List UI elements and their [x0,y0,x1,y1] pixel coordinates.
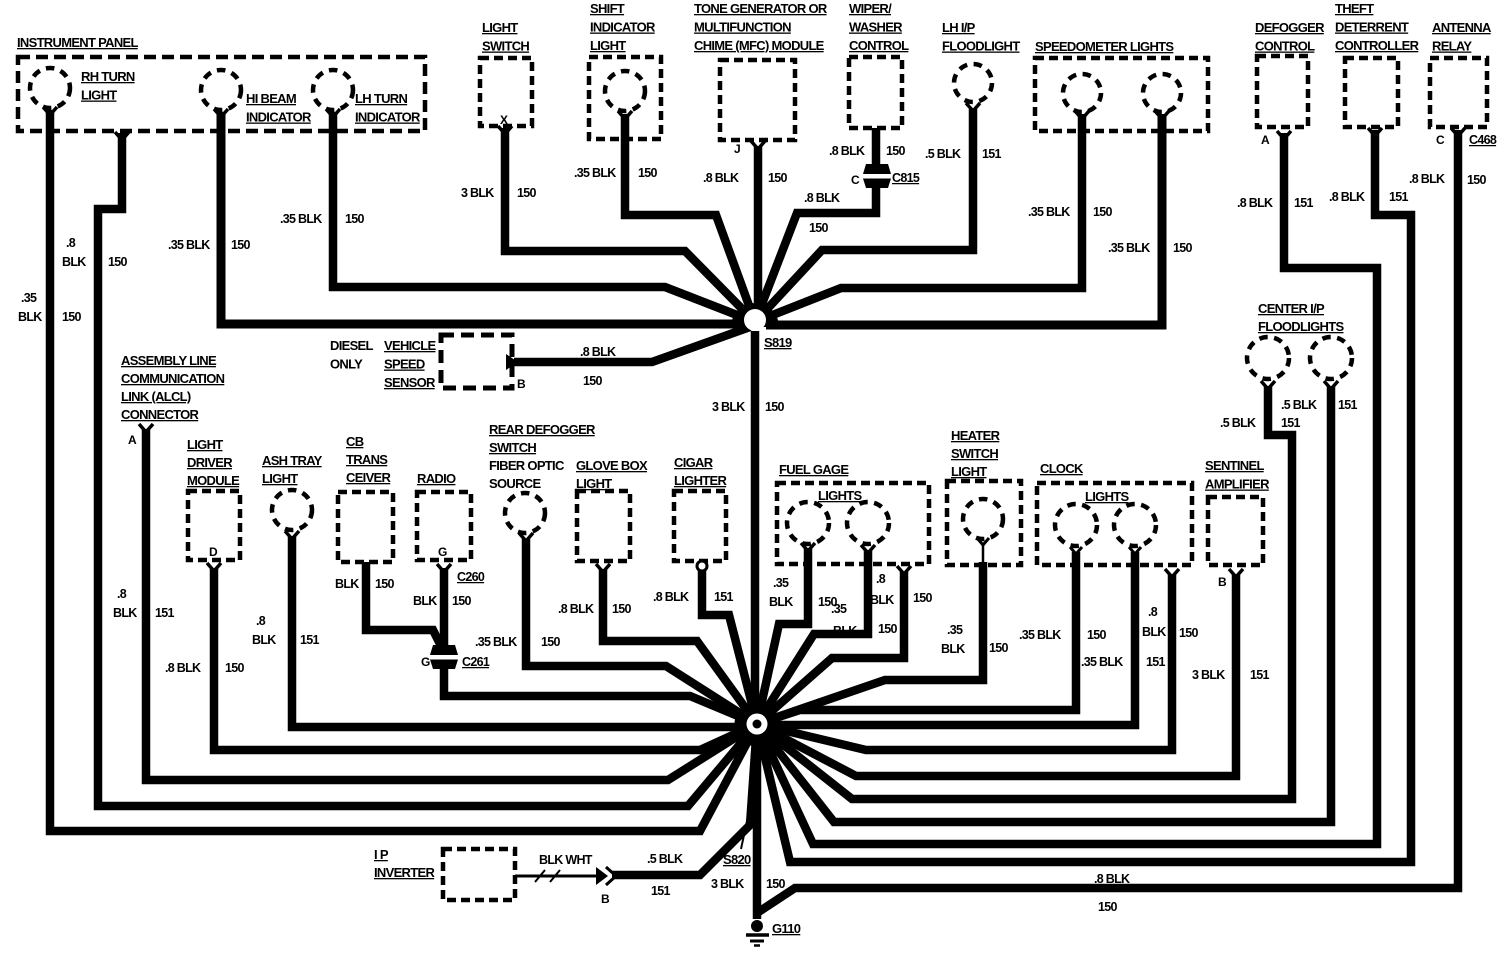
wire S820 to ground G110 (3 BLK 150) [753,724,762,919]
wire I/P INVERTER pin B to S820 (.5 BLK 151) [612,724,757,875]
svg-text:150: 150 [612,602,632,616]
svg-text:151: 151 [1338,398,1358,412]
svg-text:B: B [517,377,526,391]
svg-text:150: 150 [1173,241,1193,255]
svg-text:HI BEAM: HI BEAM [246,91,296,106]
svg-text:.8 BLK: .8 BLK [703,171,739,185]
svg-text:LH TURN: LH TURN [355,91,407,106]
module DEFOGGER CONTROL pin A [1255,20,1325,147]
label .8 BLK 150 (antenna relay wire bottom) [1094,872,1130,914]
svg-text:.8: .8 [117,587,127,601]
label .35 BLK 151 (clock wire 2) [1081,655,1166,669]
splice S819 [731,303,792,350]
svg-text:3 BLK: 3 BLK [461,186,494,200]
label .35 BLK 150 (LH TURN wire) [280,212,365,226]
svg-text:B: B [601,892,610,906]
svg-text:DIESEL: DIESEL [330,338,374,353]
svg-text:150: 150 [452,594,472,608]
svg-text:S819: S819 [764,335,792,350]
svg-text:S820: S820 [723,852,751,867]
svg-text:LIGHTER: LIGHTER [674,473,727,488]
svg-text:3 BLK: 3 BLK [1192,668,1225,682]
svg-text:.8: .8 [256,614,266,628]
svg-text:150: 150 [225,661,245,675]
svg-text:FLOODLIGHTS: FLOODLIGHTS [1258,319,1344,334]
svg-text:SWITCH: SWITCH [489,440,536,455]
lamp LH TURN INDICATOR [313,70,421,125]
label .5 BLK 151 (inverter wire) [647,852,683,898]
connector ASSEMBLY LINE COMMUNICATION LINK (ALCL) CONNECTOR pin A [121,353,225,447]
svg-text:150: 150 [1179,626,1199,640]
label 3 BLK 150 (S819-S820 wire) [712,400,785,414]
svg-text:FUEL GAGE: FUEL GAGE [779,462,849,477]
svg-text:.35: .35 [773,576,789,590]
svg-text:3 BLK: 3 BLK [712,400,745,414]
svg-text:CONTROL: CONTROL [1255,39,1315,54]
svg-text:SHIFT: SHIFT [590,1,625,16]
wire CB TRANSCEIVER to C261 (BLK 150) [366,562,444,652]
svg-text:150: 150 [809,221,829,235]
svg-text:151: 151 [155,606,175,620]
svg-text:151: 151 [982,147,1002,161]
svg-text:DEFOGGER: DEFOGGER [1255,20,1325,35]
svg-text:ASH TRAY: ASH TRAY [262,453,323,468]
svg-text:LIGHT: LIGHT [187,437,223,452]
svg-text:150: 150 [517,186,537,200]
wire SPEEDOMETER lamp 1 to S819 (.35 BLK 150) [755,114,1082,322]
svg-text:151: 151 [1250,668,1270,682]
svg-text:D: D [209,545,218,559]
module RADIO pin G [417,471,471,560]
label .8 BLK 151 (ALCL wire) [113,587,175,620]
label .8 BLK 151 (ash tray wire) [252,614,320,647]
label .8 BLK 151 (defogger wire) [1237,196,1314,210]
svg-text:INVERTER: INVERTER [374,865,435,880]
wire SPEEDOMETER lamp 2 to S819 (.35 BLK 150) [766,114,1162,325]
svg-text:J: J [734,142,740,156]
svg-text:INDICATOR: INDICATOR [355,110,421,125]
label .8 BLK 150 (instrument panel wire 2) [62,236,128,269]
label 3 BLK 150 (ground wire) [711,877,786,891]
wire CLOCK lamp 2 to S820 (.35 BLK 151) [766,552,1135,725]
label .5 BLK 151 (center I/P floodlight wire 2) [1281,398,1358,412]
svg-text:.35: .35 [21,291,37,305]
svg-text:.8: .8 [876,572,886,586]
label .8 BLK 151 (theft deterrent wire) [1329,190,1409,204]
connector C815 pin C [851,164,920,188]
svg-text:SPEEDOMETER LIGHTS: SPEEDOMETER LIGHTS [1035,39,1174,54]
label .8 BLK 150 (clock wire 3) [1142,605,1199,640]
svg-text:150: 150 [108,255,128,269]
sensor VEHICLE SPEED SENSOR (diesel only) pin B [330,335,526,391]
lamp ASH TRAY LIGHT [262,453,323,539]
wire DEFOGGER CONTROL to S820 (.8 BLK 151) [757,133,1377,844]
svg-text:C468: C468 [1469,133,1497,147]
label .8 BLK 150 (fuel gage wire 3) [870,572,933,607]
svg-text:.35: .35 [947,623,963,637]
svg-text:BLK: BLK [335,577,359,591]
speedometer lights (dashed enclosure) [1035,39,1208,131]
wire RH TURN lamp to S820 (.35 BLK 150) [50,110,757,831]
svg-text:150: 150 [1098,900,1118,914]
svg-text:WASHER: WASHER [849,20,903,35]
instrument panel (dashed enclosure) [17,35,425,131]
wire LIGHT SWITCH to S819 (3 BLK 150) [505,128,755,322]
svg-text:.35 BLK: .35 BLK [574,166,616,180]
svg-text:.8 BLK: .8 BLK [165,661,201,675]
wire S819 to S820 (3 BLK 150) [751,331,760,724]
svg-text:C261: C261 [462,655,490,669]
svg-text:X: X [500,113,508,127]
label .35 BLK 150 (shift indicator wire) [574,166,658,180]
wire THEFT DETERRENT CONTROLLER to S820 (.8 BLK 151) [757,130,1411,862]
label .8 BLK 150 (wiper upper) [829,144,906,158]
svg-text:SPEED: SPEED [384,357,425,372]
svg-text:150: 150 [345,212,365,226]
svg-text:.8: .8 [66,236,76,250]
label .35 BLK 150 (speedometer wire 1) [1028,205,1113,219]
svg-text:LIGHT: LIGHT [482,20,518,35]
svg-text:RH TURN: RH TURN [81,69,135,84]
svg-text:WIPER/: WIPER/ [849,1,892,16]
lamp SHIFT INDICATOR LIGHT [589,1,661,139]
label .35 BLK 150 (HI BEAM wire) [168,238,251,252]
svg-text:150: 150 [375,577,395,591]
lamp clock light 2 [1114,504,1156,554]
svg-text:TRANS: TRANS [346,452,388,467]
svg-text:BLK: BLK [769,595,793,609]
svg-text:.35 BLK: .35 BLK [475,635,517,649]
label .35 BLK 150 (fuel gage wire 1) [769,576,838,609]
lamp speedometer light 1 [1063,74,1101,119]
splice S820 [723,702,780,868]
svg-text:C260: C260 [457,570,485,584]
label 3 BLK 150 (light switch wire) [461,186,537,200]
svg-text:.8 BLK: .8 BLK [558,602,594,616]
svg-text:CHIME (MFC) MODULE: CHIME (MFC) MODULE [694,38,825,53]
wire CLOCK lamp 1 to S820 (.35 BLK 150) [757,552,1076,724]
svg-text:151: 151 [651,884,671,898]
module CB TRANSCEIVER [338,434,393,562]
center I/P floodlights [1258,301,1344,334]
svg-text:150: 150 [989,641,1009,655]
wire FUEL GAGE pin 3 to S820 (.8 BLK 150) [757,572,904,724]
wire WIPER/WASHER CONTROL to S819 (.8 BLK 150) [755,128,876,322]
label .35 BLK 150 (clock wire 1) [1019,628,1107,642]
svg-text:BLK: BLK [113,606,137,620]
clock lights (dashed enclosure) [1037,461,1192,565]
label BLK WHT (inverter wire) [539,853,593,867]
svg-text:.8: .8 [1148,605,1158,619]
svg-text:MULTIFUNCTION: MULTIFUNCTION [694,20,791,35]
svg-text:FLOODLIGHT: FLOODLIGHT [942,39,1020,54]
svg-text:.35 BLK: .35 BLK [1081,655,1123,669]
ground G110 [746,920,801,946]
svg-text:BLK: BLK [1142,625,1166,639]
lamp HEATER SWITCH LIGHT [947,428,1021,565]
wire TONE GENERATOR to S819 (.8 BLK 150) [754,146,763,322]
connector fuel gage pin 3 [897,566,911,574]
lamp fuel gage light 1 [787,502,829,551]
svg-text:G: G [438,545,447,559]
svg-text:LIGHTS: LIGHTS [818,488,862,503]
label .8 BLK 150 (antenna relay wire top) [1409,172,1487,187]
svg-text:.8 BLK: .8 BLK [804,191,840,205]
svg-text:150: 150 [768,171,788,185]
label .8 BLK 150 (glove box wire) [558,602,632,616]
wire ALCL CONNECTOR pin A to S820 (.8 BLK 151) [146,429,757,780]
svg-text:A: A [1261,133,1270,147]
lamp clock light 1 [1055,504,1097,554]
svg-text:CEIVER: CEIVER [346,470,392,485]
wire CLOCK pin 3 to S820 (.8 BLK 150) [757,574,1172,750]
svg-text:150: 150 [766,877,786,891]
svg-text:INSTRUMENT PANEL: INSTRUMENT PANEL [17,35,138,50]
svg-text:150: 150 [913,591,933,605]
switch LIGHT SWITCH [480,20,532,134]
svg-text:MODULE: MODULE [187,473,240,488]
svg-text:151: 151 [714,590,734,604]
svg-text:LIGHT: LIGHT [81,88,117,103]
svg-text:.35 BLK: .35 BLK [168,238,210,252]
svg-text:.35 BLK: .35 BLK [1028,205,1070,219]
svg-text:CENTER I/P: CENTER I/P [1258,301,1325,316]
svg-text:CIGAR: CIGAR [674,455,714,470]
connector C261 pin G [421,645,490,669]
svg-text:BLK: BLK [252,633,276,647]
connector C260 [437,564,485,584]
lamp center I/P floodlight 2 [1310,337,1352,389]
label .35 BLK 150 (heater switch wire) [941,623,1009,656]
svg-text:G: G [421,655,430,669]
svg-text:LIGHT: LIGHT [590,38,626,53]
svg-text:150: 150 [1087,628,1107,642]
svg-text:150: 150 [62,310,82,324]
svg-text:.8 BLK: .8 BLK [829,144,865,158]
svg-text:ONLY: ONLY [330,357,363,372]
svg-text:CLOCK: CLOCK [1040,461,1084,476]
svg-text:INDICATOR: INDICATOR [246,110,312,125]
svg-text:AMPLIFIER: AMPLIFIER [1205,477,1270,492]
component CIGAR LIGHTER [674,455,727,571]
label .35 BLK 150 (fiber optic wire) [475,635,561,649]
svg-text:DRIVER: DRIVER [187,455,233,470]
svg-text:I P: I P [374,847,389,862]
svg-text:CB: CB [346,434,364,449]
svg-text:SWITCH: SWITCH [482,39,529,54]
svg-text:151: 151 [1389,190,1409,204]
wire FUEL GAGE lamp 2 to S820 (.35 BLK 150) [757,550,868,724]
wire LIGHT DRIVER MODULE pin D to S820 (.8 BLK 150) [214,568,757,750]
svg-text:BLK: BLK [941,642,965,656]
svg-text:BLK: BLK [870,593,894,607]
label BLK 150 (radio wire) [413,594,472,608]
svg-text:150: 150 [583,374,603,388]
svg-text:.5 BLK: .5 BLK [1220,416,1256,430]
svg-text:COMMUNICATION: COMMUNICATION [121,371,225,386]
svg-text:.5 BLK: .5 BLK [647,852,683,866]
svg-text:SENTINEL: SENTINEL [1205,458,1264,473]
connector instrument panel pin 2 [115,132,129,140]
wire GLOVE BOX LIGHT to S820 (.8 BLK 150) [603,569,757,724]
svg-text:THEFT: THEFT [1335,1,1374,16]
svg-text:151: 151 [1146,655,1166,669]
wire LH I/P FLOODLIGHT to S819 (.5 BLK 151) [755,109,973,322]
svg-text:HEATER: HEATER [951,428,1001,443]
svg-text:.8 BLK: .8 BLK [1094,872,1130,886]
lamp center I/P floodlight 1 [1247,337,1289,389]
svg-text:151: 151 [300,633,320,647]
wire CIGAR LIGHTER to S820 (.8 BLK 151) [702,571,757,724]
svg-text:LIGHTS: LIGHTS [1085,489,1129,504]
svg-text:BLK: BLK [413,594,437,608]
svg-text:B: B [1218,575,1227,589]
svg-text:SENSOR: SENSOR [384,375,436,390]
lamp HI BEAM INDICATOR [201,70,312,125]
label .35 BLK 150 (fuel gage wire 2) [831,602,898,638]
fuel gage lights (dashed enclosure) [777,462,929,564]
label .35 BLK 150 (RH TURN wire) [18,291,82,324]
label .5 BLK 151 (center I/P floodlight wire 1) [1220,416,1301,430]
svg-text:SWITCH: SWITCH [951,446,998,461]
svg-text:A: A [128,433,137,447]
svg-text:C815: C815 [892,171,920,185]
svg-text:BLK: BLK [62,255,86,269]
svg-text:C: C [1436,133,1445,147]
wire RADIO pin G through C260/C261 to S820 (BLK 150) [444,568,757,724]
svg-text:LINK (ALCL): LINK (ALCL) [121,389,191,404]
svg-text:C: C [851,173,860,187]
svg-text:.35 BLK: .35 BLK [1019,628,1061,642]
wire ASH TRAY LIGHT to S820 (.8 BLK 151) [292,536,748,727]
svg-text:G110: G110 [772,921,801,936]
module LIGHT DRIVER MODULE pin D [187,437,240,571]
svg-text:.35 BLK: .35 BLK [1108,241,1150,255]
module TONE GENERATOR OR MULTIFUNCTION CHIME (MFC) MODULE [694,1,828,156]
svg-text:.5 BLK: .5 BLK [925,147,961,161]
module I P INVERTER pin B [374,847,610,906]
svg-text:RADIO: RADIO [417,471,456,486]
svg-text:DETERRENT: DETERRENT [1335,20,1409,35]
wire SHIFT INDICATOR LIGHT to S819 (.35 BLK 150) [625,114,755,322]
svg-text:150: 150 [638,166,658,180]
svg-text:151: 151 [1281,416,1301,430]
label BLK 150 (CB transceiver wire) [335,577,395,591]
wire HEATER SWITCH LIGHT to S820 (.35 BLK 150) [757,562,983,724]
svg-text:.8 BLK: .8 BLK [653,590,689,604]
wire FUEL GAGE lamp 1 to S820 (.35 BLK 150) [757,548,808,724]
svg-text:CONNECTOR: CONNECTOR [121,407,200,422]
connector I/P inverter output [596,867,616,885]
lamp LH I/P FLOODLIGHT [942,20,1020,111]
svg-text:INDICATOR: INDICATOR [590,20,656,35]
lamp RH TURN LIGHT [30,68,135,115]
label .8 BLK 150 (wiper lower) [804,191,840,235]
svg-text:151: 151 [1294,196,1314,210]
svg-text:GLOVE BOX: GLOVE BOX [576,458,648,473]
wire ANTENNA RELAY to ground wire (.8 BLK 150) [757,130,1458,913]
svg-text:TONE GENERATOR OR: TONE GENERATOR OR [694,1,828,16]
wire CENTER I/P FLOODLIGHT 2 to S820 (.5 BLK 151) [757,386,1331,822]
wire instrument panel pin 2 to S820 (.8 BLK 150) [98,133,757,806]
svg-text:.35: .35 [831,602,847,616]
svg-text:.8 BLK: .8 BLK [1329,190,1365,204]
svg-text:BLK WHT: BLK WHT [539,853,593,867]
svg-text:150: 150 [541,635,561,649]
module THEFT DETERRENT CONTROLLER [1335,1,1420,136]
svg-text:VEHICLE: VEHICLE [384,338,436,353]
svg-text:.8 BLK: .8 BLK [1237,196,1273,210]
label .35 BLK 150 (speedometer wire 2) [1108,241,1193,255]
svg-text:BLK: BLK [18,310,42,324]
svg-text:SOURCE: SOURCE [489,476,541,491]
wire LH TURN indicator to S819 (.35 BLK 150) [333,112,755,322]
svg-text:ASSEMBLY LINE: ASSEMBLY LINE [121,353,217,368]
module SENTINEL AMPLIFIER pin B [1205,458,1270,589]
lamp REAR DEFOGGER SWITCH FIBER OPTIC SOURCE [489,422,596,541]
svg-text:150: 150 [1467,173,1487,187]
label .8 BLK 151 (cigar lighter wire) [653,590,734,604]
wire HI BEAM indicator to S819 (.35 BLK 150) [221,112,744,324]
lamp speedometer light 2 [1143,74,1181,119]
wire CENTER I/P FLOODLIGHT 1 to S820 (.5 BLK 151) [757,386,1292,799]
lamp fuel gage light 2 [847,502,889,553]
label .5 BLK 151 (LH I/P floodlight wire) [925,147,1002,161]
svg-text:FIBER OPTIC: FIBER OPTIC [489,458,565,473]
svg-text:LH I/P: LH I/P [942,20,976,35]
svg-text:.8 BLK: .8 BLK [580,345,616,359]
svg-text:3 BLK: 3 BLK [711,877,744,891]
svg-text:.5 BLK: .5 BLK [1281,398,1317,412]
svg-text:.8 BLK: .8 BLK [1409,172,1445,186]
relay ANTENNA RELAY pin C / connector C468 [1430,20,1497,147]
svg-text:ANTENNA: ANTENNA [1432,20,1492,35]
lamp GLOVE BOX LIGHT [576,458,648,572]
label 3 BLK 151 (sentinel wire) [1192,668,1270,682]
wire SENTINEL AMPLIFIER pin B to S820 (3 BLK 151) [757,574,1236,776]
svg-text:RELAY: RELAY [1432,39,1472,54]
svg-text:150: 150 [886,144,906,158]
wire REAR DEFOGGER FIBER OPTIC SOURCE to S820 (.35 BLK 150) [526,539,757,724]
label .8 BLK 150 (tone generator wire) [703,171,788,185]
svg-text:CONTROLLER: CONTROLLER [1335,38,1420,53]
svg-text:150: 150 [231,238,251,252]
svg-text:150: 150 [1093,205,1113,219]
wire VEHICLE SPEED SENSOR pin B to S819 (.8 BLK 150) [514,327,750,362]
connector clock pin 3 [1165,569,1179,577]
svg-text:150: 150 [878,622,898,636]
label .8 BLK 150 (light driver wire) [165,661,245,675]
svg-text:CONTROL: CONTROL [849,38,909,53]
module WIPER/WASHER CONTROL [849,1,909,128]
svg-text:LIGHT: LIGHT [262,471,298,486]
svg-text:150: 150 [765,400,785,414]
svg-text:.35 BLK: .35 BLK [280,212,322,226]
label .8 BLK 150 (vehicle speed sensor wire) [580,345,616,388]
svg-text:BLK: BLK [833,624,857,638]
svg-text:LIGHT: LIGHT [951,464,987,479]
svg-text:REAR DEFOGGER: REAR DEFOGGER [489,422,596,437]
